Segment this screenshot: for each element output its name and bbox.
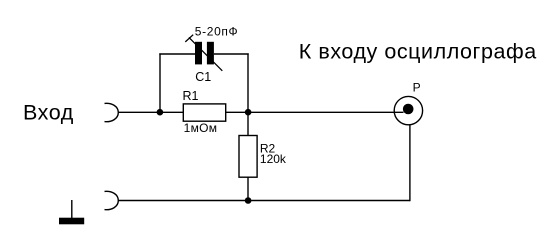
resistor R2 body [239,136,257,178]
wire node B to connector P center [248,111,404,113]
capacitor C1 left plate [195,42,202,65]
svg-text:Р: Р [413,80,421,94]
connector X1 ground contact [105,191,119,209]
svg-text:1мОм: 1мОм [184,121,218,135]
wire bottom rail up to connector P shield [409,125,411,202]
svg-text:Вход: Вход [23,101,74,125]
wire R2 to node C [247,177,249,200]
node C junction [245,197,252,204]
wire node A up to capacitor branch [159,53,161,112]
node B junction [245,109,252,116]
connector P center pin [403,104,414,115]
connector X1 signal contact [105,103,119,121]
wire R1 to node B [226,111,248,113]
wire capacitor branch down to node B [247,53,249,112]
wire capacitor branch top left [159,53,195,55]
svg-text:C1: C1 [195,70,211,84]
wire capacitor branch top right [214,53,249,55]
resistor R1 body [183,104,225,121]
svg-text:К входу осциллографа: К входу осциллографа [299,40,537,64]
capacitor C1 right plate [207,42,214,65]
ground [71,200,73,218]
wire node B down to R2 [247,112,249,135]
wire bottom rail [118,200,410,202]
capacitor C1 trimmer diagonal [189,37,222,70]
svg-text:5-20пФ: 5-20пФ [195,24,239,38]
capacitor C1 trimmer crossbar [185,35,193,42]
wire input to node A [118,111,183,113]
svg-text:120k: 120k [260,152,287,166]
svg-text:R1: R1 [183,89,199,103]
connector P shield ring [394,96,422,124]
node A junction [157,109,164,116]
